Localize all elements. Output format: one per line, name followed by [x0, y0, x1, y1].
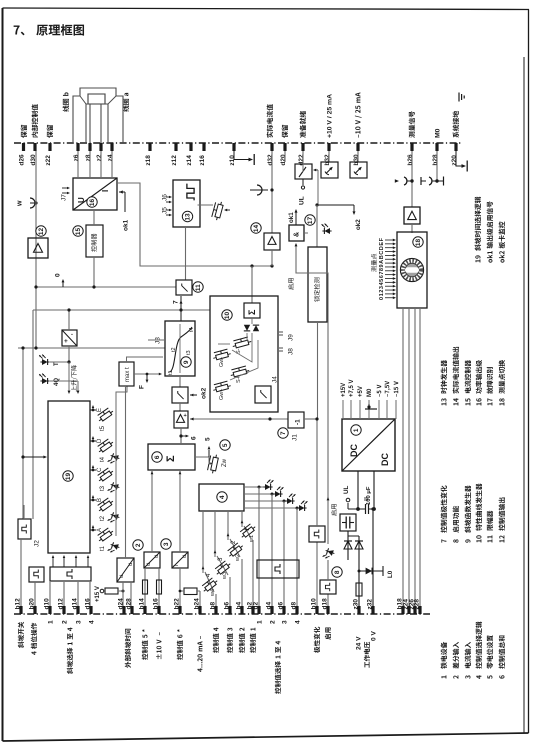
- svg-text:5: 5: [204, 437, 211, 441]
- svg-text:U: U: [77, 197, 86, 203]
- svg-text:UL: UL: [343, 486, 350, 494]
- svg-text:t3: t3: [186, 350, 192, 355]
- svg-text:ok1: ok1: [122, 219, 129, 231]
- svg-text:6: 6: [190, 436, 197, 440]
- svg-text:t4: t4: [189, 327, 195, 332]
- svg-text:4: 4: [219, 495, 226, 499]
- svg-text:3: 3: [281, 620, 288, 624]
- svg-text:d2: d2: [252, 602, 259, 610]
- svg-text:D: D: [97, 438, 103, 443]
- svg-text:17: 17: [307, 217, 314, 225]
- svg-text:6: 6: [154, 455, 161, 459]
- svg-text:w: w: [17, 200, 24, 207]
- svg-text:15: 15: [75, 228, 82, 236]
- svg-text:0: 0: [54, 273, 61, 277]
- svg-text:2: 2: [135, 543, 142, 547]
- svg-text:T: T: [54, 362, 60, 366]
- svg-text:w4: w4: [210, 589, 216, 597]
- svg-text:z28: z28: [413, 599, 420, 610]
- svg-text:+5V: +5V: [358, 386, 364, 397]
- svg-text:7: 7: [172, 300, 179, 304]
- svg-text:7: 7: [280, 431, 287, 435]
- svg-text:b6: b6: [223, 602, 230, 610]
- svg-text:z30: z30: [352, 599, 359, 610]
- svg-text:UL: UL: [298, 196, 305, 205]
- svg-text:d4: d4: [265, 602, 272, 610]
- svg-text:z4: z4: [107, 154, 114, 161]
- svg-text:J8: J8: [287, 348, 294, 355]
- svg-text:E: E: [97, 408, 103, 412]
- svg-text:Gw-: Gw-: [219, 357, 225, 367]
- svg-text:t1: t1: [100, 545, 106, 551]
- svg-text:Gw+: Gw+: [219, 389, 225, 400]
- svg-text:24 V: 24 V: [355, 636, 362, 650]
- svg-text:u: u: [119, 575, 125, 578]
- svg-text:z16: z16: [199, 155, 206, 166]
- svg-text:d20: d20: [280, 154, 287, 166]
- svg-text:4: 4: [88, 620, 95, 624]
- svg-text:0 V: 0 V: [370, 631, 377, 641]
- svg-text:+: +: [184, 413, 187, 419]
- svg-text:+15V: +15V: [341, 383, 347, 397]
- svg-text:b20: b20: [28, 598, 35, 610]
- svg-text:b12: b12: [14, 598, 21, 610]
- svg-text:b28: b28: [432, 154, 439, 166]
- svg-text:z14: z14: [186, 155, 193, 166]
- svg-text:I: I: [101, 190, 110, 192]
- svg-text:3: 3: [163, 542, 170, 546]
- svg-text:u: u: [154, 555, 160, 558]
- svg-text:b26: b26: [407, 154, 414, 166]
- svg-text:b22: b22: [173, 598, 180, 610]
- svg-text:d6: d6: [277, 602, 284, 610]
- svg-text:ok1: ok1: [288, 212, 295, 223]
- svg-text:w3: w3: [222, 572, 228, 580]
- svg-text:1: 1: [256, 620, 263, 624]
- svg-text:t5: t5: [100, 425, 106, 431]
- svg-text:d18: d18: [321, 598, 328, 610]
- svg-text:19: 19: [65, 473, 72, 481]
- svg-text:z18: z18: [145, 155, 152, 166]
- svg-text:3: 3: [75, 620, 82, 624]
- svg-text:b14: b14: [138, 598, 145, 610]
- svg-text:DC: DC: [380, 453, 390, 466]
- svg-text:+: +: [64, 338, 68, 345]
- svg-text:13: 13: [185, 213, 192, 221]
- svg-text:14: 14: [253, 225, 260, 233]
- svg-text:12: 12: [38, 228, 45, 236]
- svg-text:t1: t1: [168, 370, 174, 375]
- svg-text:-1: -1: [294, 419, 301, 425]
- svg-text:J9: J9: [287, 334, 294, 341]
- svg-text:b16: b16: [152, 598, 159, 610]
- svg-text:z6: z6: [73, 154, 80, 161]
- svg-text:J1: J1: [291, 434, 298, 441]
- svg-text:M0: M0: [434, 128, 441, 138]
- svg-text:z20: z20: [451, 155, 458, 166]
- svg-text:Σ: Σ: [247, 309, 257, 315]
- svg-text:4Q: 4Q: [54, 378, 60, 386]
- svg-text:d26: d26: [18, 154, 25, 166]
- svg-text:5: 5: [222, 443, 229, 447]
- svg-text:0123456789ABCDEF: 0123456789ABCDEF: [379, 237, 385, 300]
- svg-text:C: C: [97, 467, 103, 472]
- svg-text:11: 11: [195, 284, 202, 291]
- svg-text:u: u: [128, 563, 134, 566]
- svg-text:B: B: [97, 498, 103, 502]
- svg-text:+10 V / 25 mA: +10 V / 25 mA: [326, 94, 333, 138]
- svg-text:t2: t2: [100, 515, 106, 521]
- svg-text:d8: d8: [290, 602, 297, 610]
- svg-text:t3: t3: [100, 485, 106, 491]
- svg-text:t2: t2: [171, 347, 177, 352]
- svg-text:z10: z10: [229, 155, 236, 166]
- svg-text:16: 16: [89, 199, 96, 207]
- svg-text:b4: b4: [235, 602, 242, 610]
- svg-text:b32: b32: [324, 154, 331, 166]
- svg-text:+15 V: +15 V: [95, 586, 101, 602]
- svg-text:t4: t4: [100, 456, 106, 462]
- svg-text:b10: b10: [310, 598, 317, 610]
- svg-text:d32: d32: [267, 154, 274, 166]
- svg-text:M0: M0: [367, 388, 373, 397]
- svg-text:b24: b24: [193, 598, 200, 610]
- svg-text:DC: DC: [349, 444, 359, 457]
- svg-text:u: u: [182, 555, 188, 558]
- svg-text:2: 2: [61, 620, 68, 624]
- svg-text:J4: J4: [271, 376, 278, 383]
- svg-text:max t: max t: [125, 367, 131, 382]
- svg-text:2: 2: [269, 620, 276, 624]
- svg-text:&: &: [294, 232, 301, 237]
- svg-text:A: A: [97, 528, 103, 532]
- svg-text:b8: b8: [209, 602, 216, 610]
- svg-text:ok2: ok2: [200, 387, 207, 399]
- svg-text:1: 1: [353, 428, 360, 432]
- svg-text:J2: J2: [33, 540, 40, 547]
- svg-text:z22: z22: [45, 155, 52, 166]
- svg-text:u: u: [146, 563, 152, 566]
- svg-text:d14: d14: [71, 598, 78, 610]
- svg-text:i: i: [174, 565, 180, 566]
- svg-text:z32: z32: [366, 599, 373, 610]
- svg-text:J7: J7: [60, 194, 67, 201]
- svg-text:w2: w2: [235, 554, 241, 562]
- svg-text:1: 1: [47, 620, 54, 624]
- svg-text:z2: z2: [96, 154, 103, 161]
- svg-text:8: 8: [334, 570, 341, 574]
- svg-text:d24: d24: [117, 598, 124, 610]
- svg-text:L0: L0: [387, 570, 394, 578]
- svg-text:9: 9: [183, 360, 190, 364]
- svg-text:·: ·: [71, 332, 73, 339]
- svg-text:ok2: ok2: [355, 219, 362, 230]
- svg-text:Zw: Zw: [222, 458, 228, 467]
- svg-text:+7,5 V: +7,5 V: [349, 379, 355, 397]
- svg-text:F: F: [138, 385, 145, 389]
- svg-text:z8: z8: [85, 154, 92, 161]
- svg-text:18: 18: [415, 239, 422, 247]
- svg-text:w1: w1: [249, 535, 255, 543]
- svg-text:d10: d10: [43, 598, 50, 610]
- svg-text:b30: b30: [353, 154, 360, 166]
- svg-text:10: 10: [224, 312, 231, 320]
- svg-text:Σ: Σ: [165, 455, 177, 462]
- svg-text:z12: z12: [171, 155, 178, 166]
- svg-text:d28: d28: [125, 598, 132, 610]
- svg-text:4: 4: [294, 620, 301, 624]
- svg-text:d12: d12: [57, 598, 64, 610]
- svg-text:100 μF: 100 μF: [366, 486, 372, 505]
